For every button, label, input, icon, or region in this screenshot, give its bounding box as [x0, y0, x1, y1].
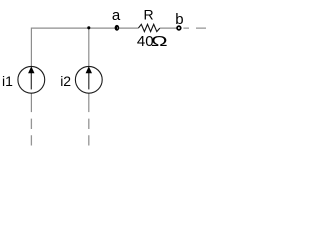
dashed wire right of node b: [183, 27, 206, 29]
junction dot: [87, 26, 90, 29]
svg-text:a: a: [112, 7, 121, 24]
wire left vertical (top of i1): [30, 28, 32, 67]
svg-text:i2: i2: [60, 73, 71, 89]
current source i2 arrow: [86, 66, 92, 89]
wire below i2: [88, 93, 90, 112]
svg-text:Ω: Ω: [151, 33, 168, 50]
resistor R zigzag: [138, 24, 159, 31]
node a: [115, 25, 120, 31]
current source i1 circle: [18, 66, 45, 93]
svg-text:R: R: [144, 6, 154, 22]
wire mid vertical (top of i2): [88, 28, 90, 66]
svg-text:b: b: [175, 11, 183, 28]
svg-text:i1: i1: [2, 73, 13, 89]
node b: [177, 26, 181, 30]
wire from resistor to node b: [160, 27, 177, 29]
wire top horizontal from left corner to resistor: [31, 27, 138, 29]
dashed wire below i1: [30, 119, 32, 146]
current source i1 arrow: [28, 66, 34, 89]
current source i2 circle: [75, 66, 102, 93]
wire below i1: [30, 93, 32, 112]
dashed wire below i2: [88, 119, 90, 146]
